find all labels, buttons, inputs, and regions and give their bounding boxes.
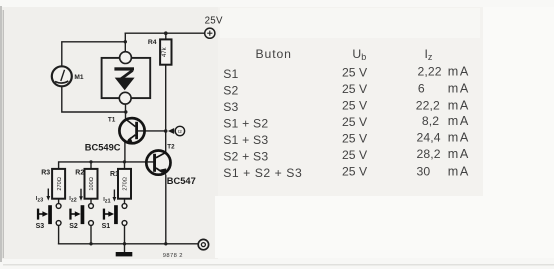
svg-text:Iz3: Iz3 <box>36 196 43 203</box>
svg-text:BC547: BC547 <box>167 176 196 186</box>
svg-text:BC549C: BC549C <box>85 143 121 153</box>
svg-text:47k: 47k <box>162 46 168 57</box>
svg-text:2,22: 2,22 <box>418 65 442 79</box>
svg-text:mA: mA <box>448 147 470 161</box>
svg-text:25 V: 25 V <box>342 99 368 113</box>
svg-text:mA: mA <box>448 114 470 128</box>
svg-text:T1: T1 <box>108 117 116 124</box>
svg-text:S2: S2 <box>223 84 238 98</box>
svg-text:S3: S3 <box>36 223 45 230</box>
svg-text:R1: R1 <box>110 171 119 178</box>
svg-text:25 V: 25 V <box>342 82 368 96</box>
svg-text:mA: mA <box>448 99 470 113</box>
svg-text:R2: R2 <box>75 170 84 177</box>
svg-text:I2: I2 <box>178 129 182 134</box>
svg-text:8,2: 8,2 <box>422 114 439 128</box>
svg-text:Iz2: Iz2 <box>69 196 76 203</box>
svg-text:T2: T2 <box>167 144 175 151</box>
svg-text:S2 + S3: S2 + S3 <box>223 150 268 164</box>
svg-text:S1: S1 <box>223 67 238 81</box>
svg-text:R4: R4 <box>148 39 157 46</box>
svg-text:mA: mA <box>448 131 470 145</box>
svg-text:100Ω: 100Ω <box>89 177 95 191</box>
svg-text:25 V: 25 V <box>342 115 368 129</box>
svg-text:S1 + S3: S1 + S3 <box>223 133 268 147</box>
svg-text:6: 6 <box>418 81 425 95</box>
svg-text:30: 30 <box>417 165 431 179</box>
svg-text:270Ω: 270Ω <box>123 177 129 191</box>
svg-text:9878 2: 9878 2 <box>163 253 183 259</box>
svg-text:mA: mA <box>448 81 470 95</box>
svg-text:S1 + S2: S1 + S2 <box>223 117 268 131</box>
svg-text:25 V: 25 V <box>342 132 368 146</box>
svg-text:25 V: 25 V <box>342 165 368 179</box>
svg-text:S2: S2 <box>69 223 78 230</box>
svg-text:S1 + S2 + S3: S1 + S2 + S3 <box>223 166 302 180</box>
svg-text:Buton: Buton <box>256 47 292 61</box>
svg-text:25V: 25V <box>205 16 223 27</box>
svg-text:M1: M1 <box>74 74 83 81</box>
svg-text:R3: R3 <box>41 170 50 177</box>
svg-text:mA: mA <box>448 65 470 79</box>
svg-text:28,2: 28,2 <box>417 147 441 161</box>
svg-text:22,2: 22,2 <box>416 99 440 113</box>
svg-text:Iz1: Iz1 <box>103 197 110 204</box>
svg-text:mA: mA <box>448 165 470 179</box>
svg-text:S3: S3 <box>223 100 238 114</box>
svg-text:S1: S1 <box>102 223 111 230</box>
svg-text:25 V: 25 V <box>342 148 368 162</box>
svg-text:25 V: 25 V <box>342 65 368 79</box>
svg-text:24,4: 24,4 <box>417 131 441 145</box>
svg-text:270Ω: 270Ω <box>57 177 63 191</box>
